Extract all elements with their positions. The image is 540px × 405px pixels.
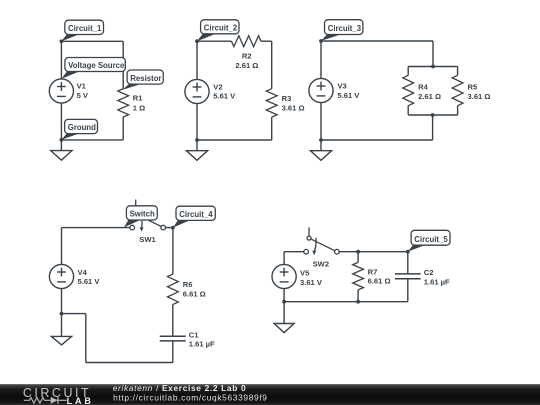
voltage source V2 <box>185 79 209 103</box>
wire circuit4 left drop <box>85 314 87 363</box>
callout Circuit_4 <box>173 206 215 227</box>
wire circuit5 top left <box>284 251 304 253</box>
svg-text:3.61 Ω: 3.61 Ω <box>468 92 491 101</box>
label V5 value <box>300 269 323 287</box>
capacitor C2 <box>395 274 421 279</box>
svg-text:Resistor: Resistor <box>130 74 161 83</box>
svg-text:5.61 V: 5.61 V <box>78 277 101 286</box>
node circuit3 tee top <box>431 65 435 69</box>
label R4 value <box>418 82 441 101</box>
node circuit5 R7 bottom <box>356 300 360 304</box>
svg-text:1.61 µF: 1.61 µF <box>189 340 215 349</box>
svg-text:http://circuitlab.com/cuqk5633: http://circuitlab.com/cuqk5633989f9 <box>113 392 268 402</box>
capacitor C1 <box>160 336 186 341</box>
svg-text:2.61 Ω: 2.61 Ω <box>418 92 441 101</box>
switch SW1 <box>130 200 166 232</box>
svg-text:V5: V5 <box>300 269 310 278</box>
callout Ground <box>61 119 97 139</box>
resistor R7 <box>353 262 364 290</box>
label V3 value <box>337 82 360 100</box>
wire circuit1 right lower <box>122 117 124 140</box>
svg-text:V1: V1 <box>77 82 87 91</box>
voltage source V3 <box>309 78 333 102</box>
svg-text:R6: R6 <box>183 280 193 289</box>
node circuit3 top <box>319 39 323 43</box>
ground circuit1 <box>51 140 72 160</box>
svg-text:erikatenn / Exercise 2.2 Lab 0: erikatenn / Exercise 2.2 Lab 0 <box>113 383 247 393</box>
wire circuit5 bottom <box>284 301 408 303</box>
wire circuit4 top right <box>165 227 173 229</box>
wire circuit1 left upper <box>60 41 62 79</box>
svg-text:Circuit_3: Circuit_3 <box>328 24 362 33</box>
wire circuit5 R7 stubs <box>357 252 359 263</box>
wire circuit4 bottom <box>86 362 173 364</box>
wire circuit3 parallel top bar <box>408 66 457 68</box>
callout Circuit_1 <box>61 20 103 41</box>
wire circuit4 stub right of node <box>62 313 86 315</box>
svg-text:2.61 Ω: 2.61 Ω <box>235 61 258 70</box>
node circuit2 bottom <box>195 138 199 142</box>
svg-text:R2: R2 <box>242 51 252 60</box>
svg-text:R3: R3 <box>282 94 292 103</box>
node circuit5 V5 bottom <box>282 300 286 304</box>
callout Circuit_3 <box>321 20 363 41</box>
svg-text:Circuit_1: Circuit_1 <box>68 24 102 33</box>
svg-text:Switch: Switch <box>130 210 155 219</box>
wire circuit2 right upper <box>271 41 273 88</box>
label V2 value <box>213 83 236 101</box>
label V4 value <box>78 268 101 286</box>
wire circuit3 left lower <box>320 103 322 140</box>
node circuit4 below V4 <box>60 312 64 316</box>
svg-text:Ground: Ground <box>68 123 96 132</box>
voltage source V5 <box>272 264 296 288</box>
wire circuit5 left lower <box>283 289 285 302</box>
svg-text:C1: C1 <box>189 330 199 339</box>
node circuit5 R7 top <box>356 250 360 254</box>
node circuit4 switch right <box>171 226 175 230</box>
svg-text:V2: V2 <box>213 83 222 92</box>
svg-text:1.61 µF: 1.61 µF <box>424 278 450 287</box>
wire circuit2 top left <box>197 40 231 42</box>
callout Resistor <box>122 70 163 90</box>
svg-text:5.61 V: 5.61 V <box>213 92 236 101</box>
svg-text:C2: C2 <box>424 268 434 277</box>
svg-text:R7: R7 <box>368 268 378 277</box>
wire circuit3 left branch stubs <box>407 67 409 76</box>
logo resistor squiggle <box>24 398 51 404</box>
ground circuit4 <box>51 314 71 345</box>
svg-text:Circuit_2: Circuit_2 <box>204 24 238 33</box>
wire circuit2 left lower <box>196 104 198 140</box>
node circuit1 top <box>60 39 64 43</box>
wire circuit1 top <box>61 40 123 42</box>
wire circuit2 top right <box>261 40 272 42</box>
node circuit3 bottom <box>319 138 323 142</box>
wire circuit5 top right <box>339 251 408 253</box>
callout Voltage Source <box>62 58 126 79</box>
wire circuit4 right mid <box>172 305 174 337</box>
svg-text:1 Ω: 1 Ω <box>133 104 145 113</box>
label R1 value <box>133 94 145 113</box>
svg-text:SW2: SW2 <box>313 259 329 268</box>
resistor R6 <box>168 274 179 305</box>
svg-text:3.61 Ω: 3.61 Ω <box>282 103 305 112</box>
resistor R5 <box>452 75 463 105</box>
node circuit2 top <box>195 39 199 43</box>
wire circuit1 left lower <box>60 103 62 140</box>
wire circuit3 right branch stubs <box>457 67 459 76</box>
svg-text:V3: V3 <box>337 82 346 91</box>
label R3 value <box>282 94 305 113</box>
svg-text:6.61 Ω: 6.61 Ω <box>368 277 391 286</box>
svg-text:3.61 V: 3.61 V <box>300 278 323 287</box>
voltage source V4 <box>49 264 73 288</box>
wire circuit5 C2 stubs <box>407 252 409 274</box>
resistor R1 <box>118 89 129 117</box>
wire circuit4 right lower <box>172 341 174 363</box>
label V1 value <box>77 82 89 100</box>
svg-text:R1: R1 <box>133 94 143 103</box>
wire circuit1 bottom <box>61 139 123 141</box>
wire circuit4 left upper <box>61 228 63 265</box>
callout Circuit_5 <box>408 230 450 251</box>
label R6 value <box>183 280 206 299</box>
wire circuit3 top <box>321 40 433 42</box>
svg-text:SW1: SW1 <box>139 235 156 244</box>
node circuit3 tee bottom <box>431 113 435 117</box>
label C2 value <box>424 268 450 287</box>
label R2 value <box>235 51 258 70</box>
ground circuit2 <box>186 140 207 160</box>
label C1 value <box>189 330 215 348</box>
wire circuit3 parallel bottom bar <box>408 114 457 116</box>
wire circuit3 bottom feed <box>432 115 434 140</box>
ground circuit3 <box>310 140 331 160</box>
svg-text:Voltage Source: Voltage Source <box>68 61 125 70</box>
wire circuit5 left upper <box>283 252 285 265</box>
svg-text:R5: R5 <box>468 82 478 91</box>
svg-text:5.61 V: 5.61 V <box>337 91 360 100</box>
svg-text:Circuit_4: Circuit_4 <box>179 210 213 219</box>
wire circuit1 right upper <box>122 41 124 88</box>
svg-text:R4: R4 <box>418 82 428 91</box>
voltage source V1 <box>49 79 73 103</box>
wire circuit3 right feed <box>432 41 434 67</box>
wire circuit4 left lower <box>61 289 63 314</box>
label R7 value <box>368 268 391 286</box>
svg-text:V4: V4 <box>78 268 88 277</box>
node circuit5 C2 top <box>406 250 410 254</box>
resistor R2 <box>231 36 261 47</box>
wire circuit3 left upper <box>320 41 322 78</box>
wire circuit2 bottom <box>197 139 272 141</box>
logo diode <box>51 397 58 404</box>
node circuit1 bottom <box>60 138 64 142</box>
callout Switch <box>124 206 157 228</box>
svg-text:6.61 Ω: 6.61 Ω <box>183 290 206 299</box>
switch SW2 <box>304 227 339 255</box>
label R5 value <box>468 82 491 101</box>
wire circuit4 right upper <box>172 228 174 274</box>
wire circuit2 left upper <box>196 41 198 79</box>
wire circuit2 right lower <box>271 117 273 140</box>
ground circuit5 <box>274 302 294 333</box>
wire circuit4 top left <box>62 227 131 229</box>
svg-text:Circuit_5: Circuit_5 <box>414 235 448 244</box>
resistor R4 <box>403 75 414 105</box>
svg-text:5 V: 5 V <box>77 91 89 100</box>
svg-text:LAB: LAB <box>67 396 94 405</box>
wire circuit3 bottom <box>321 139 433 141</box>
resistor R3 <box>266 89 277 117</box>
callout Circuit_2 <box>197 20 239 41</box>
